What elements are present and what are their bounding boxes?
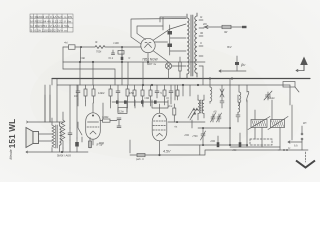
switch triangle (220, 89, 224, 97)
bottom buses (168, 144, 247, 146)
svg-text:1W: 1W (74, 95, 78, 98)
misc vertical connectors mid board (103, 100, 168, 119)
wires to transformer top (155, 17, 186, 42)
svg-text:ℓ70ℓ: ℓ70ℓ (99, 141, 104, 145)
svg-text:Mende: Mende (9, 149, 13, 159)
svg-text:√ℓ0: √ℓ0 (213, 110, 217, 114)
switch near tube V1 (78, 122, 82, 142)
svg-text:Wª: Wª (303, 121, 306, 125)
svg-text:≠100: ≠100 (113, 41, 119, 45)
svg-text:ℓℓ: ℓℓ (200, 42, 202, 45)
svg-text:δ.δ: δ.δ (294, 144, 298, 148)
label 785z NGW (142, 58, 158, 67)
grid resistor between tubes (100, 115, 117, 122)
switch bottom right (288, 121, 306, 150)
Mende logo text (8, 119, 17, 160)
dial lamp (165, 63, 186, 79)
band switch arrows (188, 108, 199, 118)
svg-text:≈kℓ: ≈kℓ (64, 41, 68, 45)
power transformer (187, 13, 197, 79)
antenna (296, 57, 308, 72)
svg-text:151 WL: 151 WL (8, 119, 17, 149)
RF coil left (oscillator) (210, 79, 212, 104)
vertical x128 (127, 62, 129, 85)
link line between tubes y102 (112, 100, 168, 113)
svg-text:√ℓ00: √ℓ00 (210, 139, 216, 143)
svg-text:2ℓ0: 2ℓ0 (203, 22, 207, 26)
corner wire (129, 140, 131, 153)
rectifier top wiring (131, 19, 186, 45)
resistor left of transformer (179, 57, 181, 79)
svg-text:≈ℓ: ≈ℓ (128, 57, 130, 60)
svg-text:785z NGW: 785z NGW (142, 58, 158, 62)
loudspeaker (26, 128, 52, 148)
svg-text:N¹ RE904 4V 0,1A Sch·m 2W: N¹ RE904 4V 0,1A Sch·m 2W (30, 15, 72, 19)
table text (30, 15, 72, 33)
svg-text:ℓℓℓ: ℓℓℓ (95, 41, 98, 44)
electrolytic cap (75, 138, 79, 152)
junction squares right zone (202, 127, 248, 146)
svg-text:5M0ℓ / A6ℓℓ: 5M0ℓ / A6ℓℓ (57, 154, 71, 158)
cap column x222 (220, 85, 224, 108)
tube V2 (152, 104, 167, 155)
right bottom: line y150 with marks (278, 147, 308, 151)
RF section top: resistor + line to rectifier (63, 41, 143, 86)
component row under bus y85 (76, 85, 179, 108)
svg-text:≈0.1: ≈0.1 (108, 56, 114, 60)
svg-text:700ℓ: 700ℓ (96, 50, 101, 54)
vertical x230 (229, 79, 231, 146)
svg-text:√Mktℓc: √Mktℓc (267, 96, 275, 100)
bus y78.5 (52, 78, 310, 80)
dashed box (250, 139, 272, 145)
IF coil 2 (236, 95, 240, 122)
svg-text:≈1W: ≈1W (144, 97, 150, 100)
svg-text:√ℓ00: √ℓ00 (184, 133, 190, 137)
svg-text:S· 0,5A 110/150/2·0V∼ m·: S· 0,5A 110/150/2·0V∼ m· (30, 28, 68, 32)
variable cap (264, 91, 275, 100)
cathode resistor V1 (89, 141, 92, 148)
cap above bus y62 (121, 54, 124, 61)
right column wires (255, 85, 292, 150)
transformer taps (199, 15, 207, 66)
junction dots (61, 61, 233, 156)
svg-text:ℓ.ℓ: ℓ.ℓ (288, 147, 291, 150)
ground chevron (296, 161, 315, 168)
svg-text:√700: √700 (192, 134, 198, 138)
coupling caps between tubes (117, 118, 121, 128)
left vertical wires (70, 62, 80, 138)
cap + bv label near top right (219, 45, 246, 72)
caps left of transformer (168, 25, 187, 55)
AVC line right of V2 (168, 104, 205, 137)
svg-text:G³ RGN354 4V 1A N·tz 50s: G³ RGN354 4V 1A N·tz 50s (30, 24, 69, 28)
speaker top feed line (27, 121, 65, 123)
svg-text:2mℓ: 2mℓ (168, 105, 172, 108)
heater feed down (202, 66, 204, 85)
box on line y84 right (283, 82, 299, 93)
parts table (30, 14, 73, 32)
svg-text:12kℓ2: 12kℓ2 (98, 91, 105, 95)
script l variable (247, 85, 249, 102)
svg-text:N² RES164 4V 0,15 22·V 8m: N² RES164 4V 0,15 22·V 8m (30, 19, 71, 23)
svg-text:ℓW: ℓW (224, 30, 228, 34)
IF transformer 1 (198, 95, 204, 120)
coil mid (239, 85, 241, 105)
bus y69 (63, 69, 115, 85)
output transformer (52, 118, 61, 148)
trimmer cap lower (192, 128, 206, 145)
svg-text:M07 1v: M07 1v (147, 62, 157, 66)
main bus y62 (63, 61, 205, 63)
small cap near speaker (68, 128, 72, 140)
resistor (field coil) (61, 112, 65, 148)
labels row (74, 91, 169, 100)
cap on bottom line mid (198, 128, 241, 152)
trimmer caps (211, 110, 222, 123)
mains line with fuse (204, 25, 247, 34)
tuning coil box 1 (248, 117, 270, 130)
svg-text:ℓKV: ℓKV (227, 45, 232, 49)
svg-text:12kℓ: 12kℓ (119, 111, 124, 114)
labels above bus y62 (80, 56, 130, 60)
main bus y85 (57, 84, 290, 86)
tuning coil box 2 (268, 117, 288, 130)
svg-text:4.5V: 4.5V (163, 150, 171, 154)
small box on y155 (136, 154, 145, 162)
wires down to output transformer (45, 79, 57, 123)
svg-text:pwb ·ℓℓ: pwb ·ℓℓ (136, 158, 144, 161)
output tube V1 (86, 103, 101, 148)
rectifier tube (141, 38, 155, 62)
svg-text:4ℓ: 4ℓ (200, 15, 202, 19)
svg-text:1/50: 1/50 (129, 92, 134, 95)
